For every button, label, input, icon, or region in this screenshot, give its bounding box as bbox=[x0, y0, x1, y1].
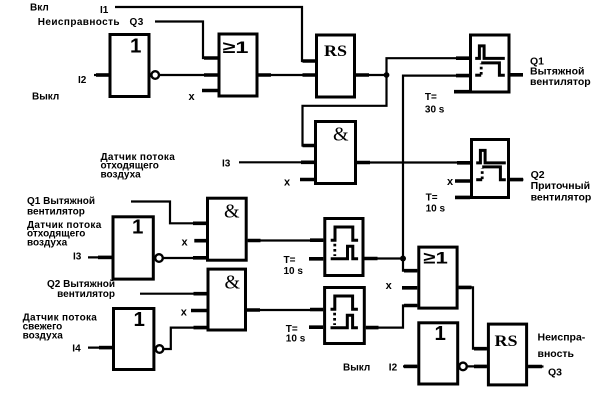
svg-text:≥1: ≥1 bbox=[223, 38, 249, 57]
svg-text:x: x bbox=[284, 177, 291, 189]
svg-text:I3: I3 bbox=[73, 252, 82, 263]
svg-text:&: & bbox=[225, 271, 241, 293]
svg-text:T=: T= bbox=[426, 192, 438, 203]
svg-text:Вкл: Вкл bbox=[30, 3, 49, 14]
svg-text:Q1 Вытяжной: Q1 Вытяжной bbox=[27, 196, 95, 207]
svg-text:Q3: Q3 bbox=[548, 367, 562, 379]
svg-text:1: 1 bbox=[134, 308, 145, 331]
svg-text:x: x bbox=[386, 280, 393, 292]
svg-text:10 s: 10 s bbox=[284, 266, 304, 277]
svg-text:RS: RS bbox=[324, 43, 347, 60]
svg-text:воздуха: воздуха bbox=[23, 331, 64, 342]
svg-text:Неисправность: Неисправность bbox=[38, 17, 120, 28]
svg-text:10 s: 10 s bbox=[426, 203, 446, 214]
svg-text:1: 1 bbox=[132, 216, 143, 239]
svg-text:воздуха: воздуха bbox=[27, 238, 68, 249]
svg-text:30 s: 30 s bbox=[425, 105, 445, 116]
svg-text:x: x bbox=[189, 91, 196, 103]
svg-text:вентилятор: вентилятор bbox=[531, 191, 592, 203]
svg-text:Выкл: Выкл bbox=[32, 92, 59, 103]
svg-text:I2: I2 bbox=[389, 363, 398, 374]
svg-text:x: x bbox=[447, 176, 454, 188]
svg-text:Неиспра-: Неиспра- bbox=[538, 332, 586, 344]
svg-text:вность: вность bbox=[538, 348, 575, 360]
svg-text:&: & bbox=[224, 201, 240, 223]
svg-text:вентилятор: вентилятор bbox=[57, 289, 115, 300]
svg-text:RS: RS bbox=[495, 333, 518, 350]
svg-text:1: 1 bbox=[435, 322, 446, 345]
svg-text:I3: I3 bbox=[222, 159, 231, 170]
svg-text:вентилятор: вентилятор bbox=[27, 206, 85, 217]
svg-text:воздуха: воздуха bbox=[101, 169, 142, 180]
svg-text:Q3: Q3 bbox=[130, 17, 144, 28]
svg-text:вентилятор: вентилятор bbox=[530, 76, 591, 88]
svg-text:&: & bbox=[333, 124, 349, 146]
svg-text:T=: T= bbox=[284, 255, 296, 266]
svg-text:x: x bbox=[182, 236, 189, 248]
svg-text:Приточный: Приточный bbox=[531, 180, 590, 192]
svg-text:I1: I1 bbox=[100, 5, 109, 16]
svg-text:x: x bbox=[181, 307, 188, 319]
svg-text:10 s: 10 s bbox=[286, 334, 306, 345]
svg-text:T=: T= bbox=[425, 92, 437, 103]
svg-text:1: 1 bbox=[130, 35, 141, 58]
svg-text:I4: I4 bbox=[72, 343, 81, 354]
svg-text:Выкл: Выкл bbox=[343, 363, 370, 374]
svg-text:I2: I2 bbox=[78, 75, 87, 86]
svg-text:≥1: ≥1 bbox=[423, 249, 448, 268]
